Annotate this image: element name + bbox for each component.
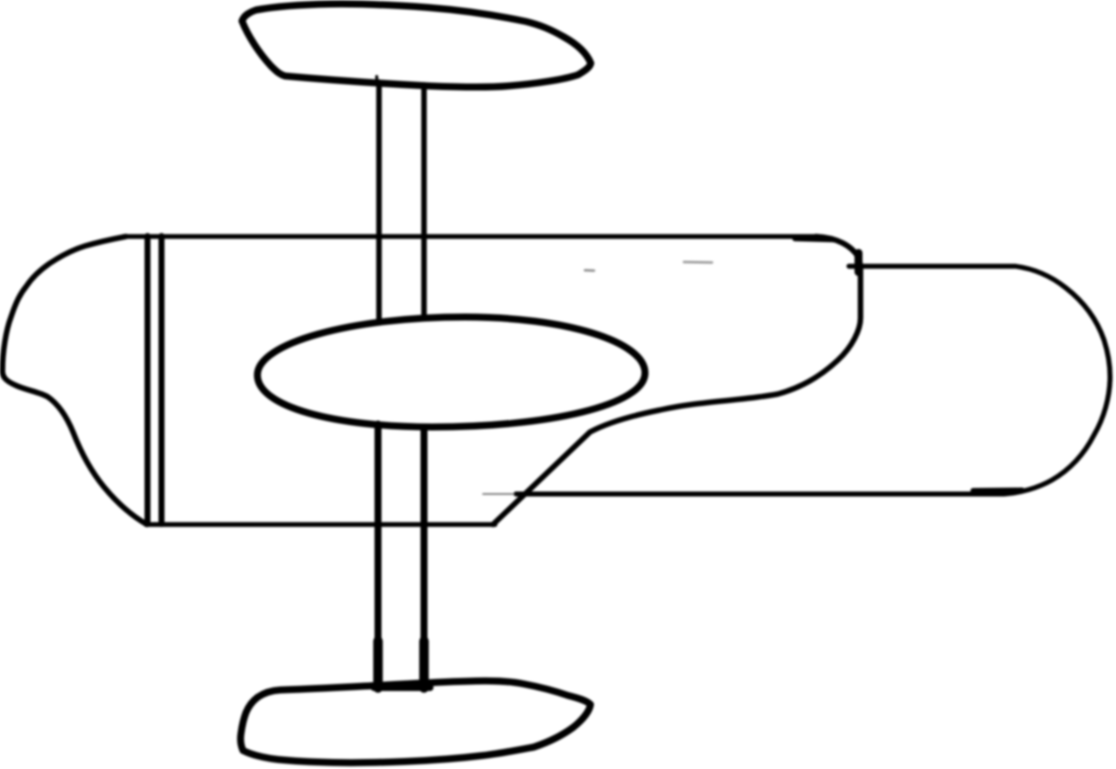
fuselage top line (124, 234, 818, 239)
nose capsule (516, 266, 1110, 494)
strut foot bar (374, 684, 430, 691)
cockpit ellipse (257, 317, 645, 427)
faint line left of diagonal (483, 493, 514, 495)
bottom strut left line lower (373, 641, 383, 688)
fuselage bottom line (146, 522, 495, 527)
top wing (242, 4, 591, 87)
top line overlap stroke near corner (795, 239, 833, 240)
left strut tick above wing edge (375, 77, 378, 83)
corner junction knot (855, 253, 863, 272)
bottom wing (241, 681, 591, 763)
top strut left line (376, 82, 382, 321)
bottom strut left line upper (375, 424, 382, 643)
top strut right line (421, 85, 427, 318)
tail double line right (159, 236, 165, 524)
fuselage right side and sweep (493, 237, 861, 525)
bottom strut right line upper (421, 427, 428, 643)
bottom strut right line lower (419, 641, 429, 688)
tail double line left (145, 236, 151, 524)
nose bottom line overlap stroke (973, 488, 1022, 494)
faint smudge under top line (684, 261, 712, 264)
tail outline curve (2, 237, 147, 525)
faint smudge short dash (585, 269, 594, 272)
